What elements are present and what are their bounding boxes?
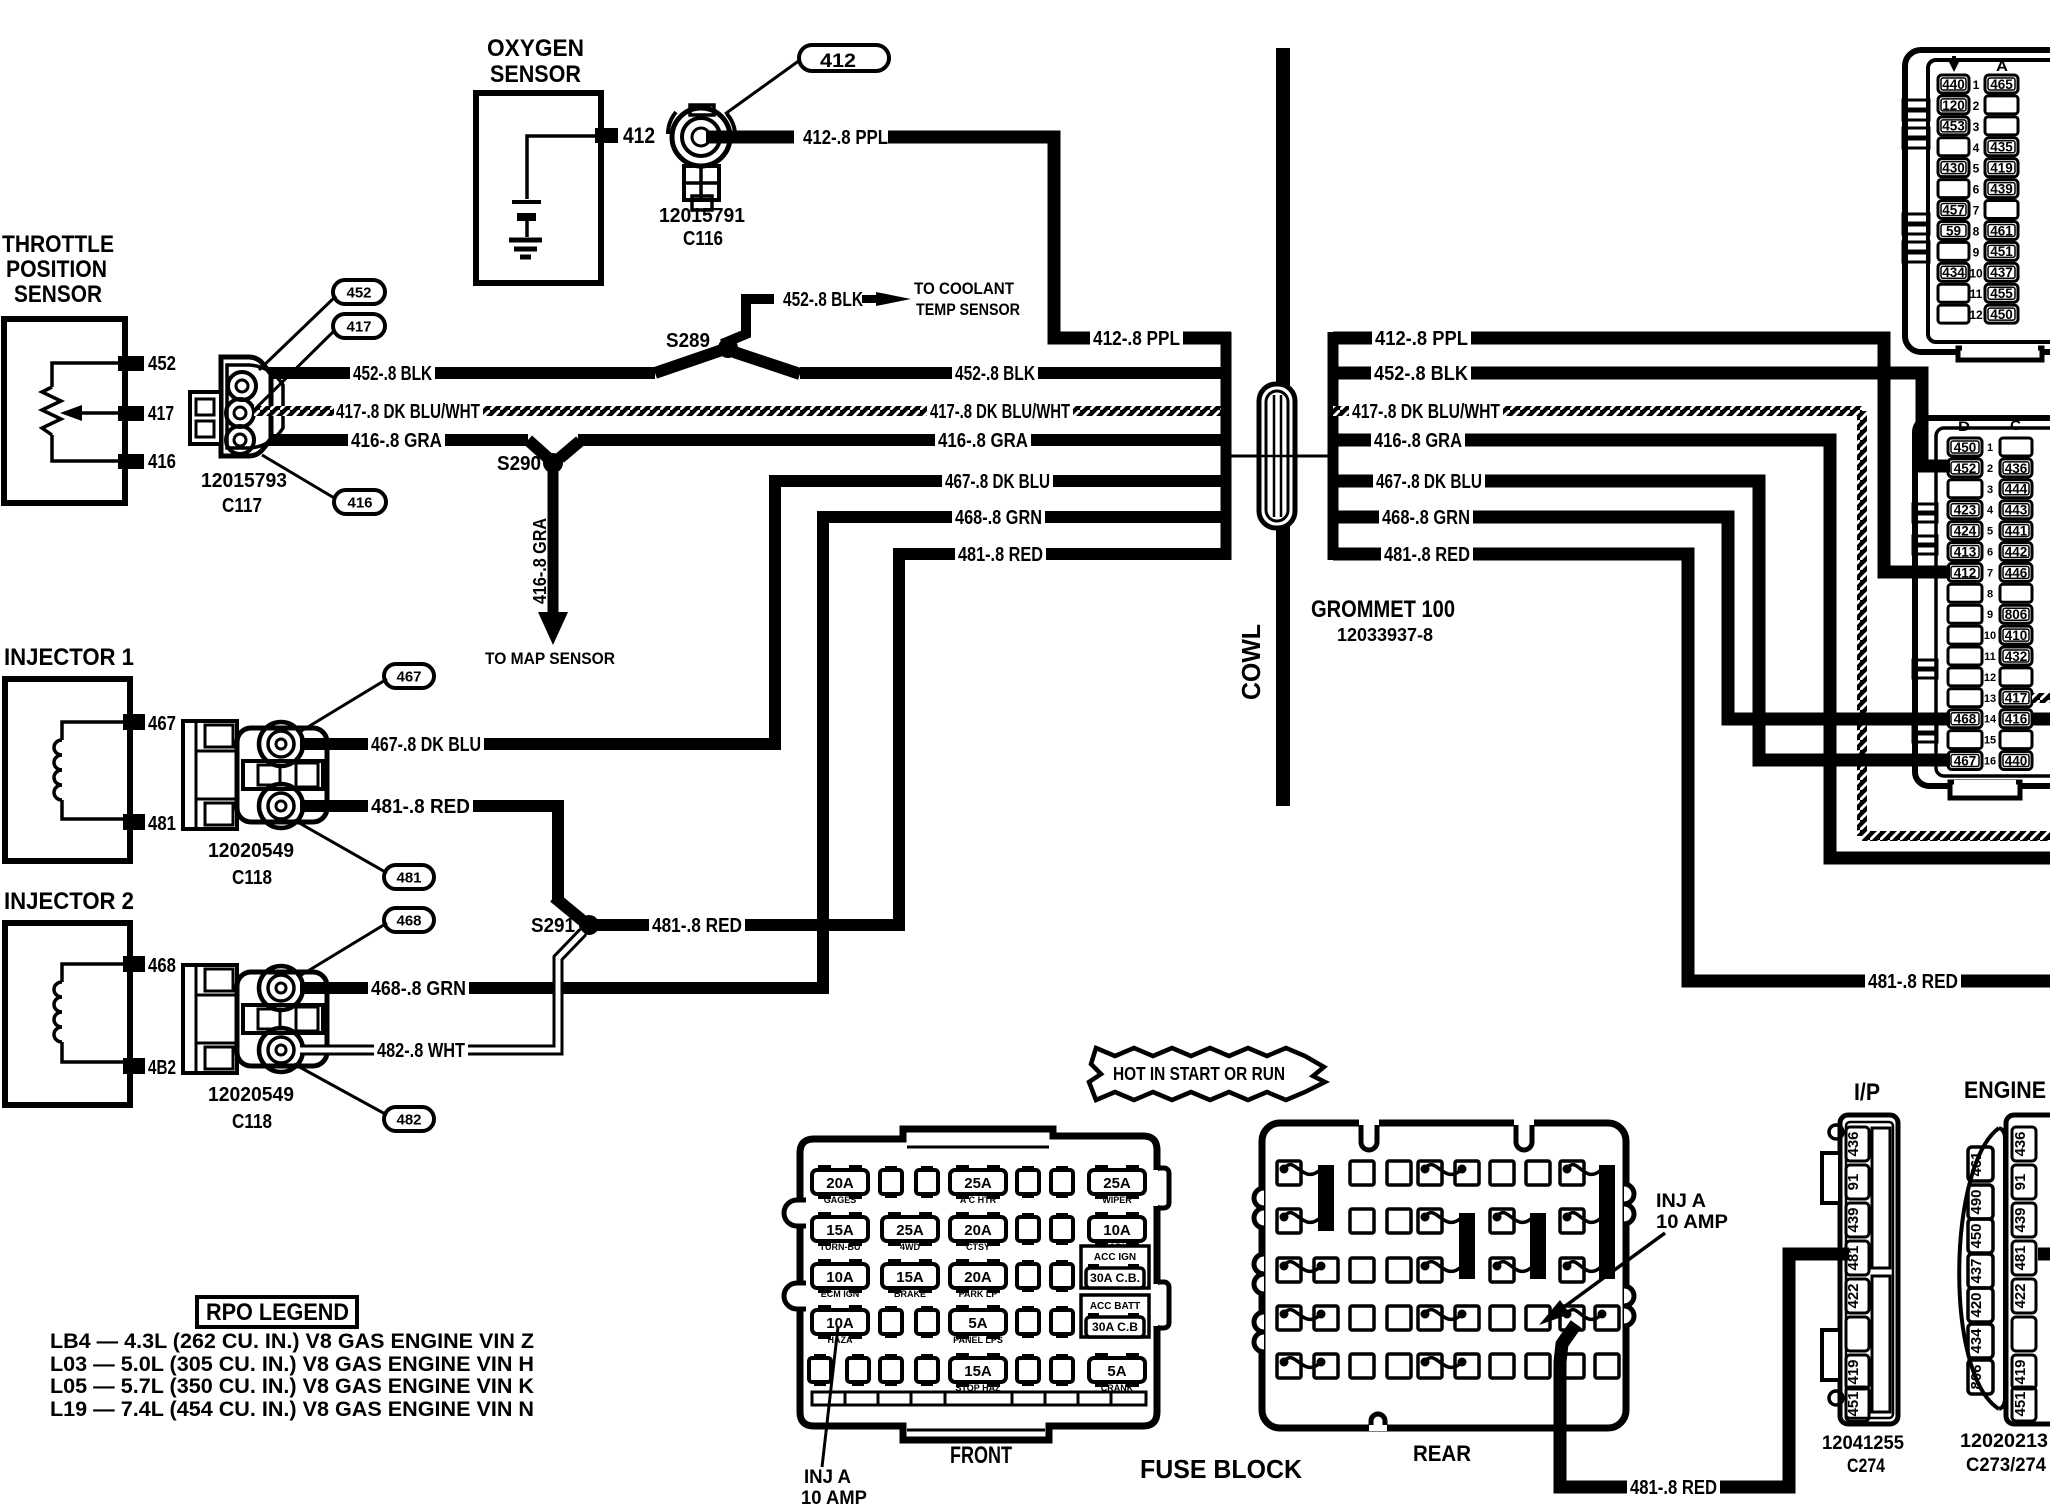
svg-text:16: 16	[1984, 756, 1996, 768]
svg-text:417-.8 DK BLU/WHT: 417-.8 DK BLU/WHT	[930, 401, 1070, 423]
fuse spare	[1056, 1166, 1068, 1172]
connector C210 bottom tab	[1950, 782, 2020, 798]
svg-text:THROTTLE: THROTTLE	[2, 231, 114, 258]
svg-text:452: 452	[1954, 461, 1977, 476]
svg-text:410: 410	[2005, 628, 2028, 643]
fuse spare	[1022, 1306, 1034, 1312]
rear block fuse sockets row 4	[1277, 1306, 1301, 1330]
svg-text:TURN-BU: TURN-BU	[820, 1242, 861, 1252]
callout bubble 482	[384, 1107, 434, 1131]
connector C274 engine-side pin 481	[2012, 1241, 2036, 1275]
svg-text:2: 2	[1973, 99, 1980, 113]
svg-text:12020549: 12020549	[208, 840, 294, 862]
svg-text:430: 430	[1942, 161, 1965, 176]
connector C274 pin 481	[1846, 1241, 1869, 1275]
connector C200 row 10	[1938, 263, 1969, 281]
svg-text:5: 5	[1987, 526, 1993, 538]
connector C274 left bumps	[1822, 1153, 1840, 1203]
svg-text:1: 1	[1987, 442, 1993, 454]
svg-text:6: 6	[1987, 547, 1993, 559]
svg-text:C274: C274	[1847, 1456, 1885, 1477]
fuse 20A CTSY	[956, 1212, 969, 1220]
svg-text:LB4 — 4.3L (262 CU. IN.) V8 GA: LB4 — 4.3L (262 CU. IN.) V8 GAS ENGINE V…	[50, 1330, 534, 1353]
connector C117 pin 452	[228, 372, 256, 400]
connector C210 row 12	[1948, 668, 1982, 686]
connector C200 row 6	[1938, 180, 1969, 198]
svg-text:481: 481	[2012, 1245, 2029, 1270]
connector C118 bottom pin	[259, 784, 303, 828]
svg-text:L05 — 5.7L (350 CU. IN.) V8 GA: L05 — 5.7L (350 CU. IN.) V8 GAS ENGINE V…	[50, 1375, 534, 1398]
wire 412-.8 PPL	[706, 131, 794, 144]
wire 468-.8 GRN right of cowl	[1333, 517, 1950, 719]
svg-text:12020549: 12020549	[208, 1084, 294, 1106]
pin 412 of oxygen sensor	[595, 128, 618, 143]
svg-text:25A: 25A	[896, 1222, 924, 1239]
svg-text:412-.8 PPL: 412-.8 PPL	[1375, 328, 1468, 350]
svg-text:91: 91	[2012, 1174, 2029, 1191]
svg-text:3: 3	[1973, 120, 1980, 134]
svg-text:8: 8	[1987, 588, 1993, 600]
fuse 25A 4WD	[888, 1212, 901, 1220]
fuse 20A GAGES	[818, 1165, 831, 1173]
svg-text:5: 5	[1973, 162, 1980, 176]
connector C118 middle latch	[243, 1005, 323, 1033]
wiper arrow of potentiometer	[76, 411, 118, 415]
wire 417-.8 DK BLU/WHT right of cowl	[1333, 406, 1862, 416]
svg-text:452: 452	[148, 353, 176, 375]
connector C210 row 1	[1948, 438, 1982, 456]
svg-text:467-.8 DK BLU: 467-.8 DK BLU	[371, 734, 481, 756]
oxygen sensor ground symbol	[509, 238, 542, 243]
leader 416	[262, 455, 336, 499]
svg-text:91: 91	[1845, 1174, 1862, 1191]
connector C273 pin 434	[1968, 1324, 1993, 1358]
svg-text:15A: 15A	[896, 1269, 924, 1286]
connector C274 engine-side pin 436	[2012, 1127, 2036, 1161]
svg-text:439: 439	[2012, 1207, 2029, 1232]
svg-text:457: 457	[1942, 202, 1965, 217]
RPO LEGEND box	[197, 1297, 357, 1327]
circuit breaker ACC IGN 30A	[1081, 1246, 1149, 1288]
wire 481 stub engine connector	[2038, 1248, 2050, 1261]
svg-text:12041255: 12041255	[1822, 1433, 1904, 1454]
svg-text:420: 420	[1968, 1292, 1985, 1317]
svg-text:424: 424	[1954, 523, 1977, 538]
svg-text:INJ A: INJ A	[1656, 1191, 1706, 1212]
fuse spare	[1056, 1260, 1068, 1266]
connector C273 pin 420	[1968, 1288, 1993, 1322]
connector C210 row 5	[1948, 522, 1982, 540]
svg-text:451: 451	[1845, 1391, 1862, 1416]
svg-text:10A: 10A	[1103, 1222, 1131, 1239]
wire 467-.8 DK BLU	[300, 738, 775, 750]
svg-text:468-.8 GRN: 468-.8 GRN	[955, 507, 1042, 529]
connector C274 engine-side body	[2006, 1115, 2050, 1424]
HOT IN START OR RUN callout	[1089, 1048, 1325, 1100]
svg-text:482: 482	[396, 1111, 421, 1128]
connector C210 D/C body	[1915, 418, 2050, 786]
connector C210 row 2	[1948, 459, 1982, 477]
svg-text:467-.8 DK BLU: 467-.8 DK BLU	[945, 471, 1050, 493]
svg-text:467: 467	[1954, 753, 1977, 768]
svg-text:C: C	[2010, 417, 2021, 433]
connector C274 pin 419	[1846, 1355, 1869, 1389]
wire 467-.8 DK BLU right of cowl	[1333, 481, 1950, 760]
connector C200 row 5	[1938, 159, 1969, 177]
rear block fuse sockets row 2	[1277, 1209, 1301, 1233]
junction S290	[528, 440, 548, 458]
connector C210 row 14	[1948, 710, 1982, 728]
junction S289	[655, 350, 722, 373]
potentiometer R-TPS	[52, 363, 118, 387]
svg-text:450: 450	[1990, 307, 2013, 322]
connector C273 left shell	[1959, 1128, 1999, 1409]
svg-text:434: 434	[1968, 1328, 1985, 1354]
svg-text:6: 6	[1973, 183, 1980, 197]
svg-text:468-.8 GRN: 468-.8 GRN	[371, 978, 466, 1000]
svg-text:3: 3	[1987, 484, 1993, 496]
svg-text:412: 412	[820, 51, 856, 72]
fuse 15A BRAKE	[888, 1259, 901, 1267]
pin 467 of injector 1	[123, 714, 145, 730]
svg-text:D: D	[1958, 418, 1970, 434]
svg-text:OXYGEN: OXYGEN	[487, 35, 584, 62]
svg-text:416-.8 GRA: 416-.8 GRA	[1374, 430, 1462, 452]
svg-text:446: 446	[2005, 565, 2028, 580]
callout bubble 416 for C117	[334, 490, 386, 514]
fuse 25A WIPER	[1095, 1165, 1108, 1173]
fuse spare	[921, 1306, 933, 1312]
svg-text:S291: S291	[531, 915, 575, 937]
svg-text:C117: C117	[222, 495, 262, 517]
svg-text:RPO LEGEND: RPO LEGEND	[206, 1299, 349, 1326]
connector C274 engine-side pin 422	[2012, 1279, 2036, 1313]
connector C117 left tab	[190, 392, 221, 444]
svg-text:12020213: 12020213	[1960, 1431, 2048, 1452]
connector C118 middle latch	[243, 761, 323, 789]
fuse spare	[1056, 1213, 1068, 1219]
connector C210 row 4	[1948, 501, 1982, 519]
COWL line upper	[1276, 48, 1290, 387]
svg-text:HAZA: HAZA	[828, 1335, 853, 1345]
connector C118 main body	[237, 972, 327, 1066]
connector C274 side strip	[1872, 1128, 1890, 1268]
svg-text:467: 467	[396, 668, 421, 685]
injector 2 box	[5, 923, 130, 1105]
leader line 482	[294, 1064, 387, 1115]
fuse 5A PANEL LPS	[956, 1305, 969, 1313]
fuse spare	[921, 1354, 933, 1360]
fuse block rear top notches	[1361, 1120, 1377, 1150]
svg-text:30A C.B: 30A C.B	[1092, 1320, 1138, 1334]
fuse 10A RADIO	[1095, 1212, 1108, 1220]
svg-text:452-.8 BLK: 452-.8 BLK	[955, 363, 1035, 385]
fuse block rear sockets row 5	[1277, 1354, 1301, 1378]
callout bubble 467	[384, 664, 434, 688]
wire 481-.8 RED right of cowl	[1333, 554, 2050, 981]
svg-text:FRONT: FRONT	[950, 1442, 1012, 1469]
svg-text:440: 440	[1942, 77, 1965, 92]
svg-text:467: 467	[148, 713, 176, 735]
connector C210 row 11	[1948, 647, 1982, 665]
svg-text:416-.8 GRA: 416-.8 GRA	[938, 430, 1028, 452]
svg-text:C118: C118	[232, 867, 272, 889]
arrow INJ A to rear socket	[1553, 1233, 1665, 1315]
svg-text:444: 444	[2005, 482, 2028, 497]
svg-text:481-.8 RED: 481-.8 RED	[371, 796, 470, 818]
svg-text:432: 432	[2005, 649, 2028, 664]
connector C273 pin 806	[1968, 1360, 1993, 1394]
connector C274 engine-side pin 91	[2012, 1165, 2036, 1199]
svg-text:442: 442	[2005, 544, 2028, 559]
svg-text:ACC IGN: ACC IGN	[1094, 1252, 1136, 1263]
svg-text:13: 13	[1984, 693, 1996, 705]
svg-text:436: 436	[2012, 1131, 2029, 1156]
rear block jumper bars	[1318, 1165, 1334, 1231]
svg-text:11: 11	[1970, 287, 1983, 301]
svg-text:C118: C118	[232, 1111, 272, 1133]
connector C200 row 9	[1938, 242, 1969, 260]
svg-text:4: 4	[1973, 141, 1980, 155]
svg-text:455: 455	[1990, 286, 2013, 301]
svg-text:419: 419	[1845, 1359, 1862, 1384]
connector C274 pin 439	[1846, 1203, 1869, 1237]
connector C274 engine-side pin 419	[2012, 1355, 2036, 1389]
callout bubble 412	[799, 45, 889, 71]
wire 481-.8 RED from S291 to bus	[597, 554, 899, 925]
fuse spare	[1022, 1354, 1034, 1360]
connector C210 row 3	[1948, 480, 1982, 498]
connector C116 body	[672, 108, 730, 166]
fuse block front left notches	[784, 1200, 806, 1226]
svg-text:20A: 20A	[964, 1269, 992, 1286]
svg-text:PANEL LPS: PANEL LPS	[953, 1335, 1003, 1345]
svg-text:450: 450	[1954, 440, 1977, 455]
wire 416-.8 GRA	[262, 434, 528, 446]
svg-text:25A: 25A	[1103, 1175, 1131, 1192]
fuse spare	[885, 1354, 897, 1360]
connector C210 row 10	[1948, 626, 1982, 644]
pin 452 of TPS	[118, 356, 144, 371]
wire 416 exit right of C210	[2032, 713, 2050, 726]
svg-text:441: 441	[2005, 523, 2028, 538]
connector C273 pin 461	[1968, 1147, 1993, 1181]
svg-text:417: 417	[346, 318, 371, 335]
connector C118 top pin	[259, 966, 303, 1010]
connector C210 left tabs	[1913, 504, 1937, 512]
connector C118 main body	[237, 728, 327, 822]
fuse spare	[1056, 1306, 1068, 1312]
connector C274 pin 451	[1846, 1387, 1869, 1421]
fuse 15A TURN-BU	[818, 1212, 831, 1220]
svg-text:416: 416	[2005, 712, 2028, 727]
svg-text:L19 — 7.4L (454 CU. IN.) V8 GA: L19 — 7.4L (454 CU. IN.) V8 GAS ENGINE V…	[50, 1398, 534, 1421]
svg-text:10A: 10A	[826, 1269, 854, 1286]
svg-text:412-.8 PPL: 412-.8 PPL	[1093, 328, 1180, 350]
connector C273 pin 450	[1968, 1219, 1993, 1253]
fuse block rear left tabs	[1254, 1188, 1264, 1228]
oxygen sensor battery symbol	[512, 200, 541, 204]
svg-text:436: 436	[1845, 1131, 1862, 1156]
injector 1 coil L1	[62, 722, 123, 740]
svg-text:416-.8 GRA: 416-.8 GRA	[351, 430, 442, 452]
callout bubble 417 for C117	[333, 314, 385, 338]
grommet 100	[1259, 384, 1295, 528]
connector C200 A/B body	[1905, 50, 2050, 352]
svg-text:10 AMP: 10 AMP	[801, 1488, 867, 1504]
fuse spare	[1022, 1166, 1034, 1172]
svg-text:GROMMET 100: GROMMET 100	[1311, 596, 1455, 623]
fuse 5A CRANK	[1095, 1353, 1108, 1361]
svg-text:481: 481	[148, 813, 176, 835]
svg-text:437: 437	[1990, 265, 2013, 280]
svg-text:5A: 5A	[968, 1315, 987, 1332]
svg-text:PARK LP: PARK LP	[959, 1289, 998, 1299]
svg-text:413: 413	[1954, 544, 1977, 559]
connector C118 left tab	[183, 965, 237, 1073]
wire 416-.8 GRA right of cowl	[1333, 440, 2050, 858]
connector C210 row 15	[1948, 731, 1982, 749]
svg-text:4B2: 4B2	[148, 1057, 176, 1079]
svg-text:12015791: 12015791	[659, 205, 745, 227]
svg-text:REAR: REAR	[1413, 1441, 1471, 1466]
svg-text:CTSY: CTSY	[966, 1242, 990, 1252]
grommet link line	[1231, 455, 1328, 458]
branch to coolant temp sensor	[722, 299, 774, 344]
svg-text:467-.8 DK BLU: 467-.8 DK BLU	[1376, 471, 1482, 493]
svg-text:POSITION: POSITION	[6, 256, 107, 283]
connector C200 bottom tab	[1958, 348, 2042, 360]
pin 481 of injector 1	[123, 814, 145, 830]
branch to MAP sensor	[548, 470, 559, 612]
leader line 467	[298, 679, 387, 733]
fuse spare	[1056, 1354, 1068, 1360]
svg-text:GAGES: GAGES	[824, 1195, 857, 1205]
connector C200 row 2	[1938, 96, 1969, 114]
circuit breaker ACC BATT 30A	[1081, 1295, 1149, 1337]
svg-text:806: 806	[2005, 607, 2028, 622]
rear block fuse sockets row 1	[1277, 1161, 1301, 1185]
svg-text:SENSOR: SENSOR	[14, 281, 102, 308]
leader line 481	[294, 820, 387, 873]
svg-text:30A C.B.: 30A C.B.	[1090, 1271, 1140, 1285]
pin 482 of injector 2	[123, 1058, 145, 1074]
wire 412-.8 PPL right of cowl	[1333, 338, 1950, 572]
wire 482-.8 WHT	[300, 932, 583, 1050]
svg-text:25A: 25A	[964, 1175, 992, 1192]
svg-text:4WD: 4WD	[900, 1242, 921, 1252]
svg-text:439: 439	[1845, 1207, 1862, 1232]
svg-text:481-.8 RED: 481-.8 RED	[652, 915, 742, 937]
svg-text:15A: 15A	[964, 1363, 992, 1380]
svg-text:S289: S289	[666, 330, 710, 352]
svg-text:10: 10	[1984, 630, 1996, 642]
svg-text:453: 453	[1942, 119, 1965, 134]
connector C118 bottom pin	[259, 1028, 303, 1072]
connector C200 row 12	[1938, 305, 1969, 323]
svg-text:12015793: 12015793	[201, 470, 287, 492]
svg-text:481: 481	[396, 869, 421, 886]
connector C117 pin 417	[226, 399, 254, 427]
svg-text:419: 419	[1990, 161, 2013, 176]
connector C200 row 11	[1938, 284, 1969, 302]
wire 481-.8 RED from injector 1	[300, 806, 558, 901]
svg-text:490: 490	[1968, 1189, 1985, 1214]
svg-text:10: 10	[1969, 266, 1983, 280]
wire 417 hatched stub right of C210	[2032, 693, 2050, 703]
rear block fuse sockets row 3	[1277, 1258, 1301, 1282]
connector C200 row 3	[1938, 117, 1969, 135]
fuse block front bottom rail	[812, 1392, 1146, 1405]
svg-text:A: A	[1996, 58, 2008, 75]
fuse spare	[885, 1166, 897, 1172]
callout bubble 481	[384, 865, 434, 889]
svg-text:12033937-8: 12033937-8	[1337, 625, 1433, 645]
svg-text:468: 468	[148, 955, 176, 977]
svg-text:BRAKE: BRAKE	[894, 1289, 926, 1299]
svg-text:452: 452	[346, 284, 371, 301]
svg-text:461: 461	[1990, 223, 2013, 238]
svg-text:12: 12	[1969, 308, 1983, 322]
connector C273 pin 437	[1968, 1254, 1993, 1288]
svg-text:461: 461	[1968, 1151, 1985, 1176]
svg-text:452-.8 BLK: 452-.8 BLK	[1374, 363, 1469, 385]
fuse block front body	[800, 1129, 1157, 1440]
connector C274 pin 91	[1846, 1165, 1869, 1199]
junction S291	[579, 915, 599, 935]
COWL line lower	[1276, 525, 1290, 806]
fuse 10A ECM IGN	[818, 1259, 831, 1267]
svg-text:468-.8 GRN: 468-.8 GRN	[1382, 507, 1470, 529]
svg-text:434: 434	[1942, 265, 1965, 280]
svg-text:450: 450	[1968, 1223, 1985, 1248]
pin 417 of TPS	[118, 406, 144, 421]
svg-text:2: 2	[1987, 463, 1993, 475]
svg-text:TO MAP SENSOR: TO MAP SENSOR	[485, 649, 615, 668]
wire 468-.8 GRN	[300, 517, 823, 988]
callout bubble 452 for C117	[333, 280, 385, 304]
connector C274 engine-side pin 439	[2012, 1203, 2036, 1237]
svg-text:417-.8 DK BLU/WHT: 417-.8 DK BLU/WHT	[1352, 401, 1500, 423]
svg-text:8: 8	[1973, 224, 1980, 238]
connector C210 row 9	[1948, 605, 1982, 623]
svg-text:20A: 20A	[826, 1175, 854, 1192]
connector C200 row 7	[1938, 201, 1969, 219]
connector C274 engine-side pin 451	[2012, 1387, 2036, 1421]
connector C210 row 13	[1948, 689, 1982, 707]
fuse block rear bottom notch	[1371, 1414, 1385, 1431]
svg-text:14: 14	[1984, 714, 1997, 726]
svg-text:412: 412	[1954, 565, 1977, 580]
svg-text:422: 422	[2012, 1283, 2029, 1308]
svg-text:416: 416	[148, 451, 176, 473]
connector C116 lower tab	[684, 166, 719, 200]
svg-text:417-.8 DK BLU/WHT: 417-.8 DK BLU/WHT	[336, 401, 480, 423]
svg-text:481-.8 RED: 481-.8 RED	[1630, 1477, 1717, 1499]
oxygen sensor box	[476, 93, 601, 283]
svg-text:15: 15	[1984, 735, 1996, 747]
svg-text:481-.8 RED: 481-.8 RED	[958, 544, 1043, 566]
svg-text:I/P: I/P	[1854, 1079, 1880, 1106]
svg-text:440: 440	[2005, 753, 2028, 768]
svg-text:416-.8 GRA: 416-.8 GRA	[530, 518, 550, 604]
svg-text:435: 435	[1990, 140, 2013, 155]
connector C118 top pin	[259, 722, 303, 766]
svg-text:419: 419	[2012, 1359, 2029, 1384]
oxygen sensor internal wire	[527, 136, 596, 199]
connector C274 pin 422	[1846, 1279, 1869, 1313]
svg-text:5A: 5A	[1107, 1363, 1126, 1380]
